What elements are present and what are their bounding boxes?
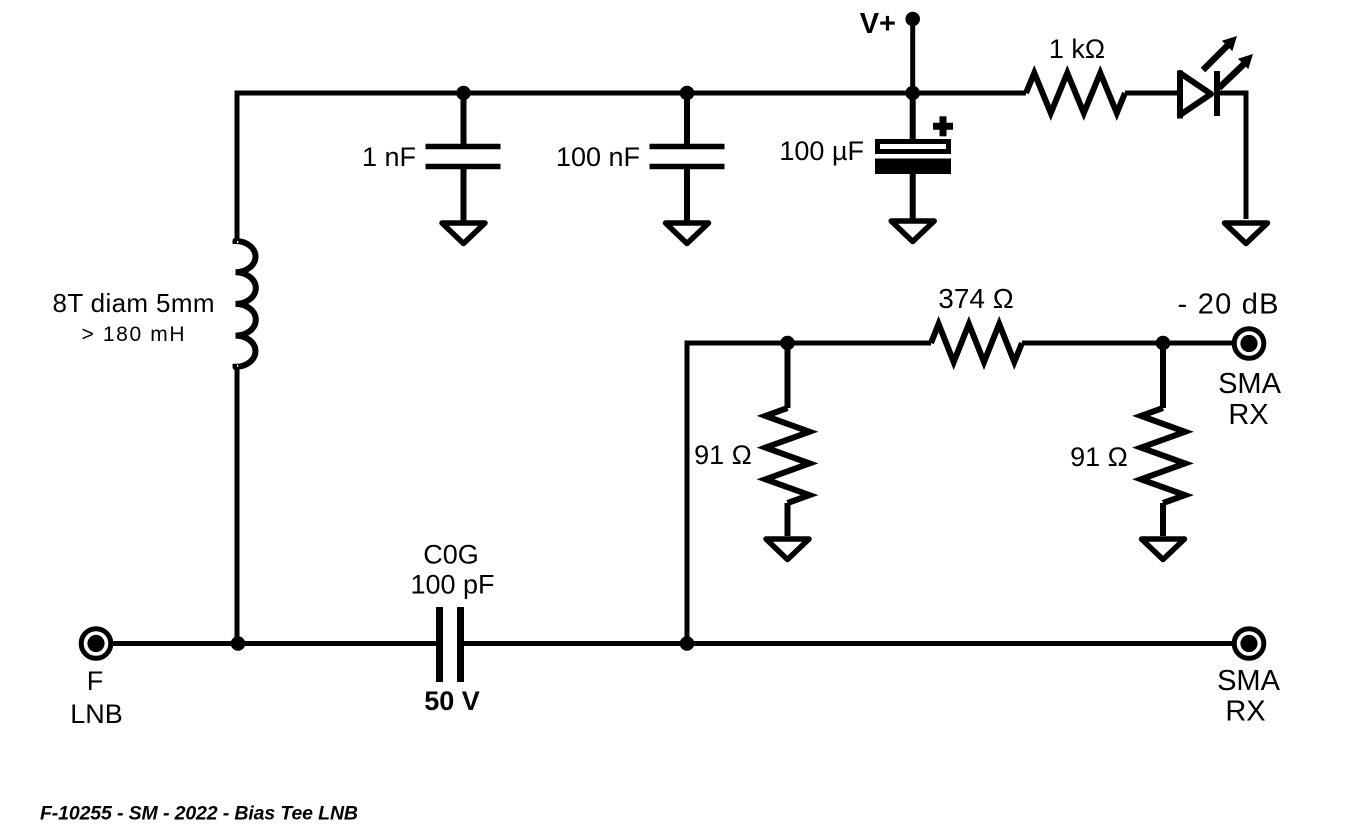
- svg-text:1 kΩ: 1 kΩ: [1049, 34, 1105, 64]
- svg-text:91 Ω: 91 Ω: [694, 440, 752, 470]
- svg-text:F-10255 - SM - 2022 - Bias Tee: F-10255 - SM - 2022 - Bias Tee LNB: [40, 803, 358, 825]
- svg-text:F: F: [87, 666, 104, 696]
- svg-text:RX: RX: [1228, 399, 1268, 431]
- svg-text:LNB: LNB: [70, 699, 123, 729]
- svg-text:8T diam 5mm: 8T diam 5mm: [53, 288, 215, 318]
- svg-text:SMA: SMA: [1217, 665, 1281, 697]
- svg-text:50 V: 50 V: [424, 686, 480, 716]
- svg-text:100 pF: 100 pF: [410, 570, 494, 600]
- svg-text:C0G: C0G: [423, 540, 479, 570]
- svg-text:100 nF: 100 nF: [556, 142, 640, 172]
- svg-text:> 180 mH: > 180 mH: [82, 323, 185, 346]
- svg-text:1 nF: 1 nF: [362, 142, 416, 172]
- svg-text:100 µF: 100 µF: [779, 136, 864, 166]
- svg-text:V+: V+: [860, 8, 896, 40]
- svg-text:374 Ω: 374 Ω: [938, 283, 1013, 314]
- svg-text:91 Ω: 91 Ω: [1070, 442, 1128, 472]
- svg-text:RX: RX: [1225, 696, 1265, 728]
- svg-text:- 20 dB: - 20 dB: [1178, 289, 1279, 321]
- svg-text:SMA: SMA: [1218, 368, 1282, 400]
